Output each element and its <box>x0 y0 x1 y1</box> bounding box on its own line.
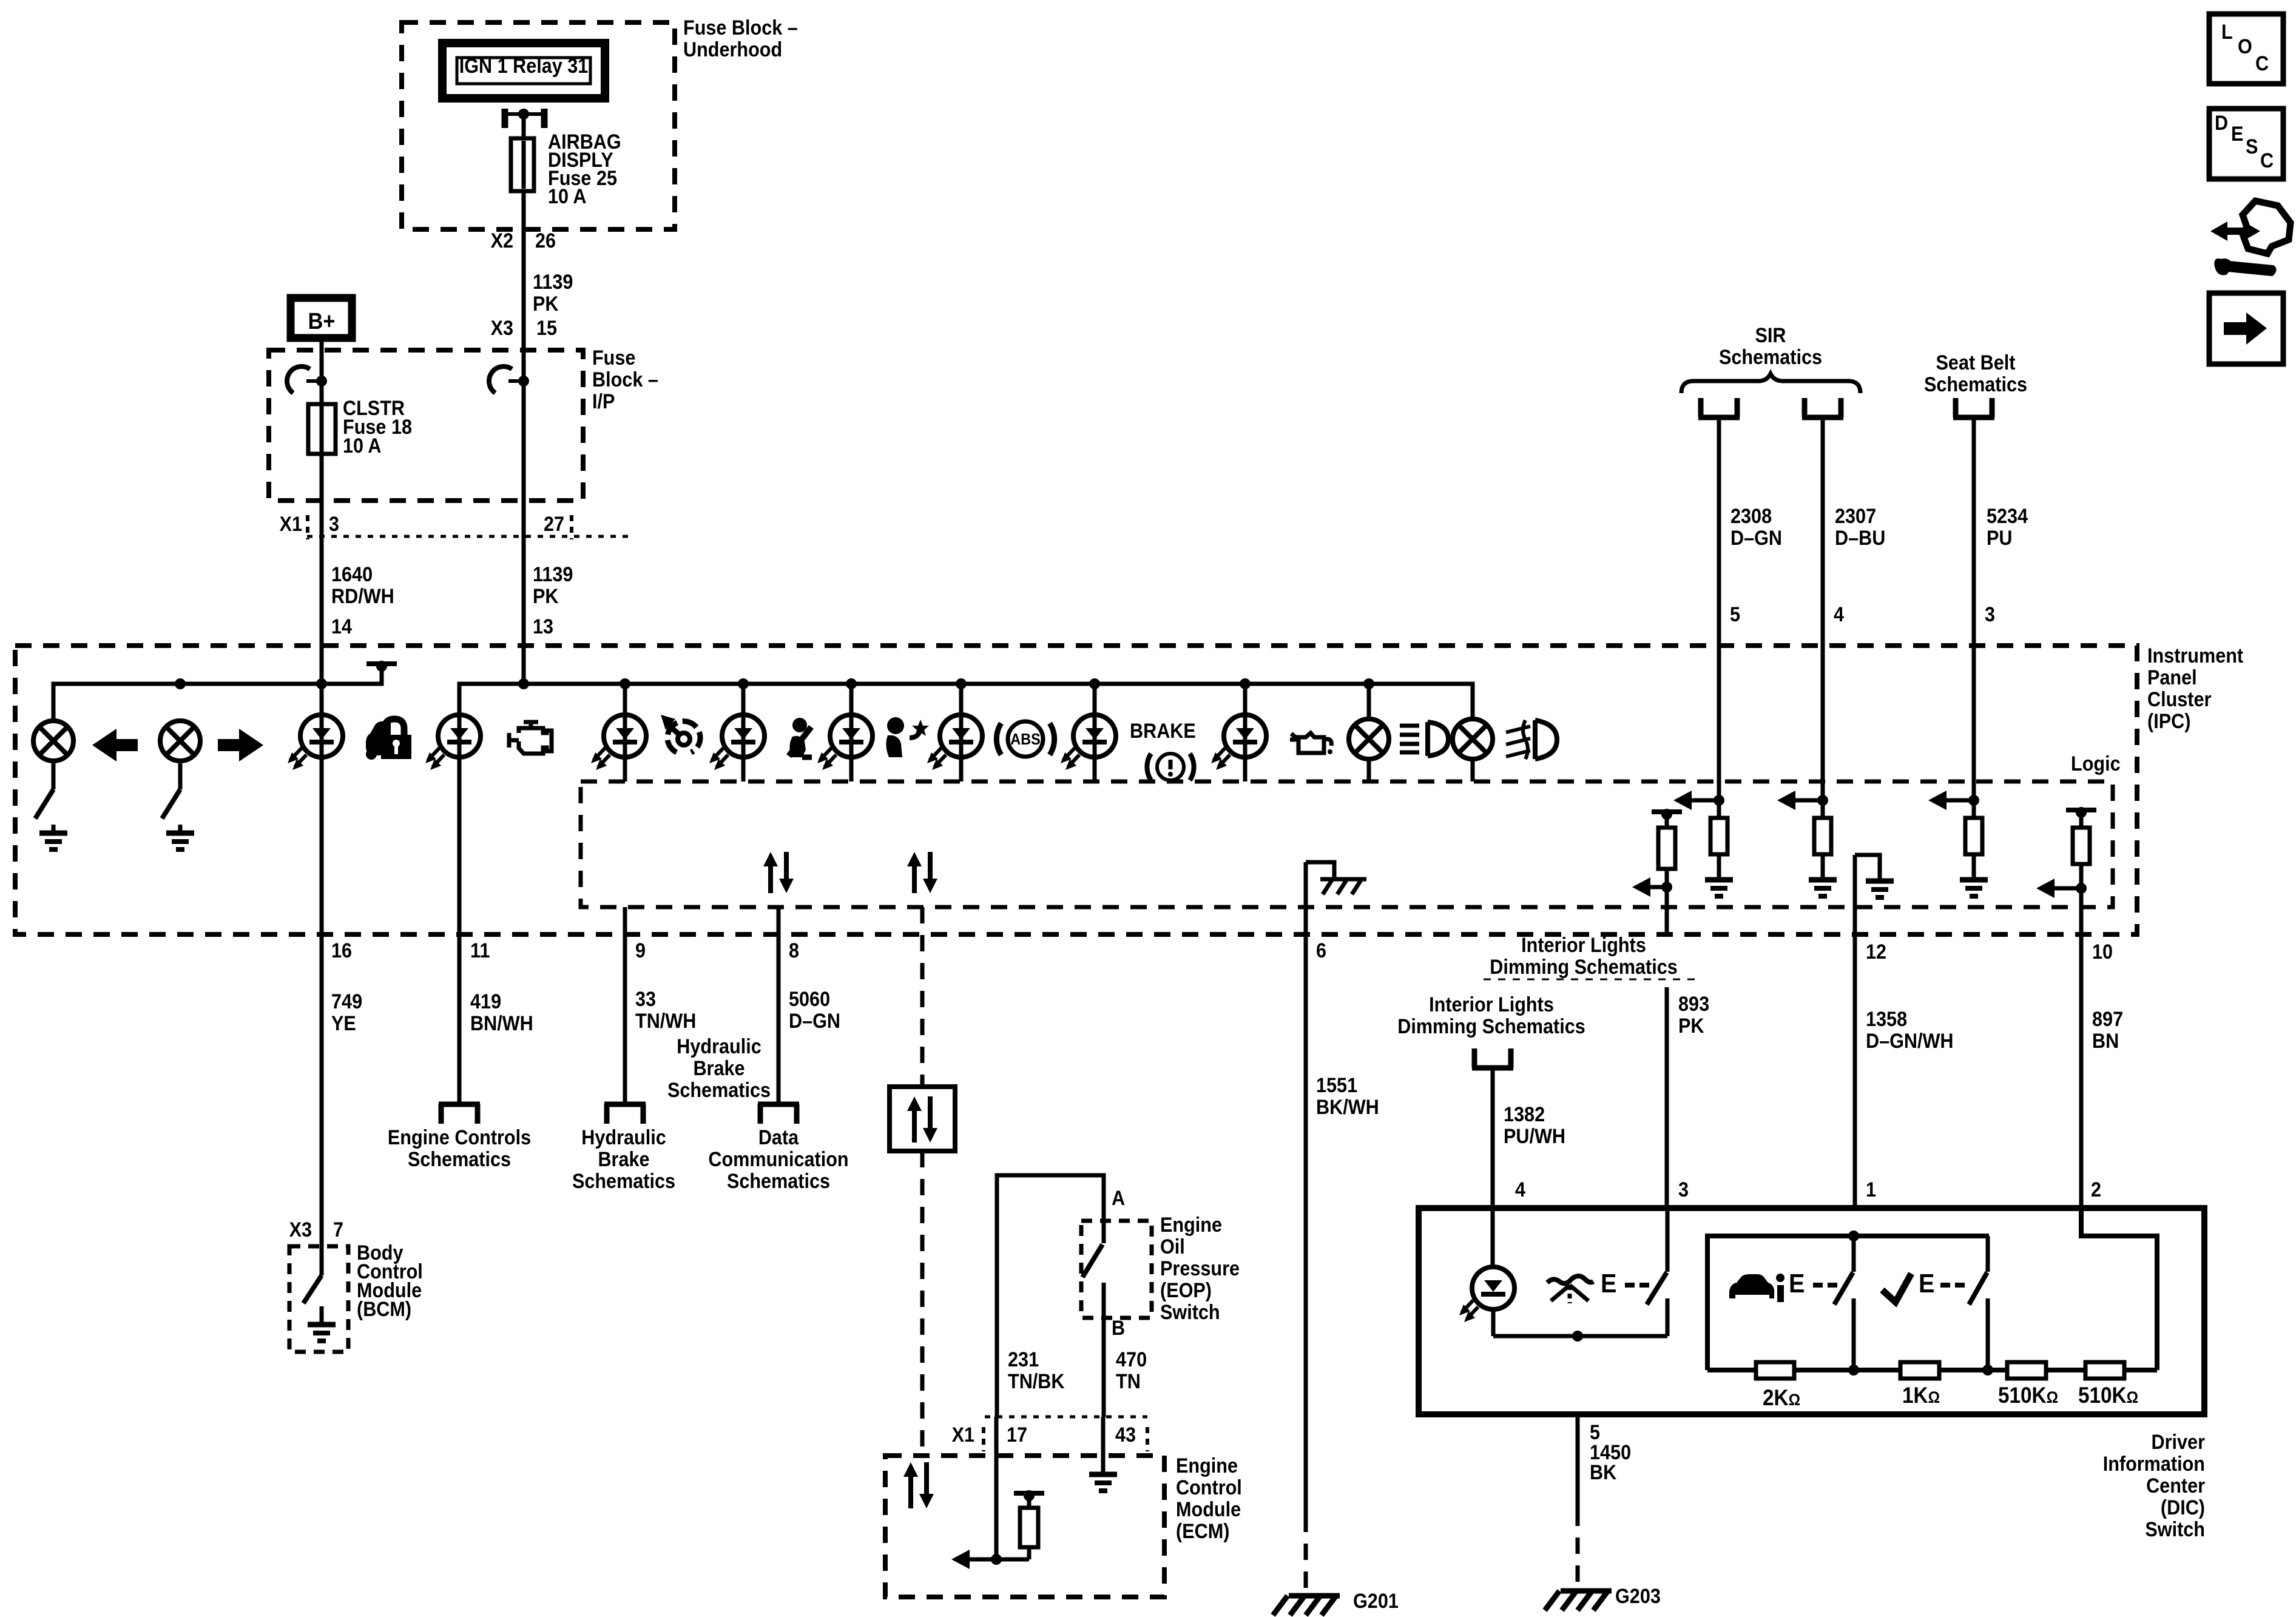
check mark icon <box>1882 1274 1911 1302</box>
legend box arrow <box>2209 293 2283 364</box>
wire 9 / 33 TN-WH <box>623 907 627 1103</box>
ECM output arrow <box>951 1550 1029 1569</box>
off-page bracket DIC dimming feed <box>1472 1048 1513 1068</box>
oil can icon <box>1290 733 1332 754</box>
svg-text:14: 14 <box>331 615 352 638</box>
svg-text:Control: Control <box>1176 1476 1242 1499</box>
svg-text:15: 15 <box>536 317 557 340</box>
wire EOP loop <box>997 1175 1104 1417</box>
wire 1139 PK lower segment <box>522 549 526 684</box>
junction dot wire1 bottom <box>1848 1365 1859 1376</box>
resistor 2K <box>1756 1362 1794 1379</box>
svg-text:D–BU: D–BU <box>1835 527 1885 550</box>
svg-text:5060: 5060 <box>789 988 830 1011</box>
wire 2 inner jog <box>2081 1208 2157 1370</box>
BCM switch blade <box>303 1275 322 1303</box>
svg-text:G203: G203 <box>1615 1585 1661 1608</box>
relay IGN 1 Relay 31 <box>442 43 605 98</box>
wire 6 dashed segment <box>1304 1516 1308 1596</box>
svg-text:26: 26 <box>535 229 556 252</box>
svg-text:(ECM): (ECM) <box>1176 1520 1229 1543</box>
legend box LOC <box>2209 14 2283 84</box>
off-page bracket SIR wire 2307 <box>1802 398 1843 417</box>
svg-text:G201: G201 <box>1353 1590 1399 1613</box>
ground seat belt wire <box>1960 880 1988 896</box>
junction and arrow seat belt wire <box>1968 795 1979 806</box>
left turn arrow icon <box>92 729 138 761</box>
svg-text:TN/BK: TN/BK <box>1008 1370 1065 1393</box>
bidirectional arrows in ECM <box>903 1462 934 1508</box>
svg-text:Engine: Engine <box>1160 1214 1222 1237</box>
dimming switch blade <box>1647 1272 1667 1305</box>
svg-text:Schematics: Schematics <box>408 1148 511 1171</box>
svg-text:Fuse Block –: Fuse Block – <box>683 16 798 39</box>
svg-text:Schematics: Schematics <box>667 1079 771 1102</box>
wire 749 YE to BCM <box>320 934 324 1246</box>
wire 10 / 897 BN <box>2079 888 2084 1208</box>
logic ground wire 12 <box>1855 855 1880 881</box>
off-page bracket wire 8 <box>758 1104 799 1124</box>
svg-text:7: 7 <box>333 1218 343 1241</box>
svg-text:PK: PK <box>533 292 559 316</box>
junction dot wire 14 <box>316 678 327 689</box>
svg-text:6: 6 <box>1316 939 1326 962</box>
junction dot and arrow wire 10 <box>2076 883 2087 894</box>
gauge icon with arrow <box>661 715 700 752</box>
wire 1640 RD/WH <box>320 549 324 721</box>
svg-text:419: 419 <box>470 990 501 1013</box>
headlight indicator lamp <box>1349 719 1389 759</box>
svg-text:Cluster: Cluster <box>2147 688 2211 711</box>
resistor 510K second <box>2085 1362 2124 1379</box>
DIC resistor network line <box>1707 1368 2157 1372</box>
svg-text:Schematics: Schematics <box>1719 346 1822 369</box>
wire DIC LED to common <box>1491 1308 1496 1336</box>
svg-text:TN/WH: TN/WH <box>635 1010 696 1033</box>
svg-text:Oil: Oil <box>1160 1235 1185 1258</box>
svg-text:10 A: 10 A <box>343 434 382 457</box>
svg-text:1139: 1139 <box>533 563 573 586</box>
svg-text:E: E <box>1919 1269 1934 1298</box>
svg-text:(IPC): (IPC) <box>2147 710 2190 733</box>
svg-text:3: 3 <box>1985 603 1995 626</box>
wire fog lamp bottom <box>1471 759 1475 781</box>
fuse F25 AIRBAG DISPLY 10A <box>511 138 534 191</box>
ground G203 <box>1545 1591 1612 1610</box>
svg-text:(DIC): (DIC) <box>2161 1496 2205 1519</box>
wire ABS LED <box>959 684 964 781</box>
security indicator LED <box>288 715 343 770</box>
svg-text:Interior Lights: Interior Lights <box>1521 934 1646 957</box>
svg-text:Switch: Switch <box>1160 1301 1220 1324</box>
svg-text:BN/WH: BN/WH <box>470 1012 533 1035</box>
EOP switch enclosure <box>1081 1221 1152 1318</box>
driver information center enclosure <box>1419 1208 2204 1414</box>
svg-text:C: C <box>2260 149 2274 172</box>
wire dimming switch lower <box>1666 1298 1670 1336</box>
svg-text:A: A <box>1112 1187 1125 1210</box>
svg-text:O: O <box>2238 35 2252 58</box>
junction dot check switch bottom <box>1982 1365 1993 1376</box>
wire 1382 PU/WH <box>1491 1068 1495 1208</box>
switch blade lamp1 <box>35 789 53 819</box>
wire 14 through IPC <box>320 684 324 934</box>
wire fuse 25 to connector X2 <box>522 191 526 258</box>
body control module enclosure <box>289 1246 348 1352</box>
svg-text:5: 5 <box>1730 603 1740 626</box>
svg-text:1551: 1551 <box>1316 1074 1357 1097</box>
svg-text:Interior Lights: Interior Lights <box>1429 993 1554 1016</box>
ground G201 <box>1273 1596 1340 1615</box>
svg-text:1358: 1358 <box>1866 1008 1907 1031</box>
DIC backlight LED <box>1459 1267 1514 1322</box>
svg-text:L: L <box>2221 21 2233 44</box>
svg-text:D: D <box>2215 112 2228 135</box>
svg-text:Hydraulic: Hydraulic <box>677 1035 761 1058</box>
svg-text:X2: X2 <box>491 229 513 252</box>
seat belt indicator LED <box>709 715 765 770</box>
wire 5 DIC to ground <box>1576 1414 1580 1510</box>
resistor 510K first <box>2007 1362 2046 1379</box>
wire 1139 through IP block <box>522 350 526 549</box>
brace SIR <box>1681 374 1860 393</box>
svg-text:8: 8 <box>789 939 799 962</box>
svg-text:ABS: ABS <box>1010 730 1040 748</box>
right turn indicator lamp <box>160 721 200 761</box>
svg-text:Hydraulic: Hydraulic <box>581 1126 666 1149</box>
wire DIC pin4 to LED <box>1491 1208 1495 1268</box>
junction dot wire 17 <box>991 1554 1002 1565</box>
svg-text:893: 893 <box>1678 993 1709 1016</box>
svg-text:D–GN: D–GN <box>1730 527 1782 550</box>
svg-text:C: C <box>2255 52 2269 75</box>
junction dot bus2 x=1225 <box>738 678 749 689</box>
off-page bracket SIR wire 2308 <box>1698 398 1740 417</box>
BCM switch wire <box>320 1246 324 1275</box>
wire 5234 PU <box>1972 417 1976 800</box>
svg-text:(BCM): (BCM) <box>357 1298 411 1321</box>
ECM supply bar <box>1014 1490 1044 1501</box>
wire 43 inside ECM to ground <box>1101 1417 1106 1473</box>
svg-text:10 A: 10 A <box>548 185 587 208</box>
wire 1 lower contact <box>1852 1298 1856 1370</box>
svg-text:BK: BK <box>1590 1461 1617 1484</box>
svg-text:Information: Information <box>2103 1453 2205 1476</box>
wire 893 PK upper <box>1665 887 1669 933</box>
check engine icon <box>509 722 552 754</box>
junction dot and output arrow wire 893 <box>1661 882 1672 893</box>
svg-text:BRAKE: BRAKE <box>1130 720 1196 743</box>
junction dot DIC common <box>1572 1331 1583 1342</box>
airbag indicator LED <box>817 715 873 770</box>
svg-text:Brake: Brake <box>693 1057 745 1080</box>
DIC switch inner box <box>1707 1236 1989 1370</box>
junction dot bus2 x=2256 <box>1363 678 1374 689</box>
wire EOP top contact <box>1102 1221 1106 1243</box>
wire 17 inside ECM <box>994 1417 999 1559</box>
wire brake LED <box>1093 684 1097 781</box>
svg-text:B+: B+ <box>308 309 336 334</box>
resistor wire 5 <box>1717 800 1721 818</box>
resistor wire 4 <box>1821 800 1825 818</box>
wire gauge LED <box>623 684 627 781</box>
engine control module enclosure <box>885 1456 1164 1597</box>
right turn arrow icon <box>218 729 263 761</box>
svg-text:PU: PU <box>1987 527 2013 550</box>
junction dot bus2 x=1030 <box>620 678 630 689</box>
serial data dashed wire lower <box>920 1151 925 1456</box>
svg-text:E: E <box>2231 123 2243 146</box>
svg-text:749: 749 <box>331 990 362 1013</box>
svg-text:5234: 5234 <box>1987 505 2028 528</box>
svg-text:Module: Module <box>1176 1498 1241 1521</box>
wire airbag LED <box>849 684 854 781</box>
ground wire 4 <box>1809 880 1837 896</box>
svg-text:4: 4 <box>1515 1178 1525 1201</box>
svg-text:I/P: I/P <box>592 390 615 413</box>
wire 12 / 1358 D-GN-WH <box>1853 855 1857 1208</box>
svg-text:Engine Controls: Engine Controls <box>388 1126 531 1149</box>
svg-text:Logic: Logic <box>2071 752 2121 775</box>
wire oil LED <box>1243 684 1248 781</box>
svg-text:Engine: Engine <box>1176 1454 1238 1477</box>
left turn indicator lamp <box>33 721 73 761</box>
svg-text:RD/WH: RD/WH <box>331 585 394 608</box>
svg-text:TN: TN <box>1116 1370 1141 1393</box>
check switch blade <box>1969 1272 1987 1305</box>
fuse block underhood enclosure <box>402 22 675 229</box>
relay output terminal <box>502 109 508 128</box>
switch blade lamp2 <box>162 789 180 819</box>
wire 1139 PK upper segment <box>522 258 526 350</box>
junction and arrow wire 4 <box>1817 795 1828 806</box>
fog light icon <box>1506 720 1557 759</box>
car info icon <box>1729 1274 1784 1302</box>
wire lamp1 to switch <box>52 761 56 789</box>
wire 11 through IPC <box>458 684 462 934</box>
ECM connector X1 row <box>985 1416 1147 1419</box>
wire headlight lamp <box>1367 684 1371 719</box>
svg-text:4: 4 <box>1834 603 1844 626</box>
svg-text:16: 16 <box>331 939 352 962</box>
IPC internal ground flag <box>1306 862 1334 879</box>
wire 2308 D-GN <box>1717 417 1721 800</box>
svg-text:897: 897 <box>2092 1008 2123 1031</box>
svg-text:Brake: Brake <box>598 1148 649 1171</box>
svg-text:Block –: Block – <box>592 368 658 391</box>
wire 6 / 1551 BK-WH <box>1304 862 1308 1516</box>
svg-text:YE: YE <box>331 1012 356 1035</box>
svg-text:2308: 2308 <box>1730 505 1772 528</box>
svg-text:470: 470 <box>1116 1348 1147 1371</box>
logic block enclosure <box>581 781 2113 907</box>
ground wire 43 <box>1089 1474 1117 1491</box>
wire 8 / 5060 D-GN <box>777 907 781 1103</box>
svg-text:B: B <box>1112 1317 1125 1340</box>
svg-text:11: 11 <box>470 939 490 962</box>
svg-text:PK: PK <box>1678 1014 1704 1038</box>
svg-text:1: 1 <box>1866 1178 1876 1201</box>
connector X2 pin 26 <box>522 232 526 258</box>
svg-text:Underhood: Underhood <box>683 38 782 61</box>
svg-text:Switch: Switch <box>2145 1518 2205 1541</box>
svg-text:Fuse: Fuse <box>592 346 635 370</box>
svg-text:X1: X1 <box>952 1423 974 1447</box>
BCM ground <box>308 1306 336 1341</box>
svg-text:S: S <box>2246 135 2258 158</box>
svg-text:1640: 1640 <box>331 563 373 586</box>
off-page bracket seat belt wire <box>1953 398 1994 417</box>
brake indicator LED <box>1061 715 1116 770</box>
svg-text:231: 231 <box>1008 1348 1039 1371</box>
wire lamp2 to switch <box>178 761 183 789</box>
wire 2307 D-BU <box>1821 417 1825 800</box>
logic supply bar wire 893 <box>1652 809 1682 820</box>
resistor wire 10 <box>2079 814 2084 828</box>
headlight icon <box>1400 722 1448 756</box>
svg-text:E: E <box>1601 1269 1616 1298</box>
svg-text:3: 3 <box>329 513 339 536</box>
seat belt icon <box>789 718 812 757</box>
svg-text:Schematics: Schematics <box>727 1170 830 1193</box>
serial data dashed wire upper <box>920 907 925 1087</box>
supply stub terminal <box>366 661 397 672</box>
wire fuse 18 down <box>320 454 324 549</box>
instrument panel cluster enclosure <box>15 646 2137 934</box>
wire 893 PK lower <box>1665 987 1669 1208</box>
svg-text:12: 12 <box>1866 940 1886 964</box>
svg-text:27: 27 <box>544 513 564 536</box>
svg-text:X3: X3 <box>491 317 513 340</box>
junction dot lamp2 <box>175 678 186 689</box>
svg-text:Communication: Communication <box>708 1148 848 1171</box>
wire seatbelt LED <box>741 684 746 781</box>
wire relay to fuse 25 <box>522 114 526 138</box>
logic supply bar wire 10 <box>2066 807 2096 818</box>
battery feed B+ <box>291 298 352 338</box>
resistor 1K <box>1900 1362 1939 1379</box>
ground lamp1 <box>39 825 67 849</box>
junction and arrow wire 5 <box>1714 795 1724 806</box>
ABS indicator LED <box>927 715 982 770</box>
svg-text:PU/WH: PU/WH <box>1504 1125 1565 1148</box>
svg-text:E: E <box>1789 1269 1805 1298</box>
svg-text:Panel: Panel <box>2147 666 2197 689</box>
svg-text:BN: BN <box>2092 1030 2119 1053</box>
svg-text:D–GN: D–GN <box>789 1010 840 1033</box>
wire DIC pin3 to switch <box>1666 1208 1670 1272</box>
bus wire left (fuse 18 feed) <box>53 669 382 721</box>
svg-text:IGN 1 Relay 31: IGN 1 Relay 31 <box>459 55 589 78</box>
oil pressure indicator LED <box>1211 715 1266 770</box>
svg-text:1382: 1382 <box>1504 1103 1545 1126</box>
svg-text:1139: 1139 <box>533 271 573 294</box>
svg-text:Pressure: Pressure <box>1160 1257 1240 1280</box>
svg-text:PK: PK <box>533 585 559 608</box>
wire fog lamp <box>1471 684 1475 719</box>
wire headlight lamp bottom <box>1367 759 1371 781</box>
svg-text:SIR: SIR <box>1755 324 1786 347</box>
ground lamp2 <box>166 825 194 849</box>
junction dot bus2 x=1584 <box>956 678 967 689</box>
svg-text:10: 10 <box>2092 940 2113 964</box>
svg-text:2307: 2307 <box>1835 505 1876 528</box>
feed hook CLSTR fuse <box>282 361 310 393</box>
wire B+ to fuse block IP <box>320 338 324 404</box>
off-page bracket wire 11 <box>439 1104 480 1124</box>
junction dot bus2 x=1804 <box>1089 678 1100 689</box>
bidirectional arrows serial data <box>907 852 937 893</box>
airbag icon <box>886 717 929 757</box>
check engine indicator LED <box>425 715 481 770</box>
svg-text:D–GN/WH: D–GN/WH <box>1866 1030 1954 1053</box>
wire check switch top contact <box>1986 1236 1990 1272</box>
junction dot bus2 x=1403 <box>846 678 857 689</box>
serial data connector box <box>890 1087 955 1151</box>
junction dot bus2 x=863 <box>518 678 529 689</box>
fuse block I/P enclosure <box>269 350 583 501</box>
feed hook fuse block IP right <box>484 361 512 393</box>
svg-text:17: 17 <box>1007 1423 1027 1447</box>
junction dot bus2 x=2052 <box>1240 678 1251 689</box>
svg-text:Instrument: Instrument <box>2147 644 2243 667</box>
svg-text:3: 3 <box>1678 1178 1689 1201</box>
bidirectional arrows in data box <box>907 1096 937 1143</box>
wire 5 dashed segment <box>1576 1510 1580 1591</box>
EOP switch blade <box>1082 1244 1102 1277</box>
ABS icon <box>996 721 1054 757</box>
legend tools icon <box>2210 201 2291 274</box>
gauge warning LED <box>591 715 646 770</box>
svg-text:33: 33 <box>635 988 656 1011</box>
dimming icon <box>1547 1276 1593 1303</box>
resistor seat belt wire <box>1972 800 1976 818</box>
wire EOP lower contact <box>1102 1283 1106 1417</box>
fog indicator lamp <box>1453 719 1493 759</box>
bus wire right (fuse 25 feed) <box>459 684 1473 721</box>
resistor wire 893 <box>1665 815 1669 828</box>
ECM pull-up resistor <box>1027 1547 1032 1559</box>
legend box DESC <box>2209 109 2283 179</box>
svg-text:(EOP): (EOP) <box>1160 1279 1212 1302</box>
svg-text:X3: X3 <box>289 1218 312 1241</box>
svg-text:43: 43 <box>1115 1423 1136 1447</box>
fuse F18 CLSTR 10A <box>308 404 336 454</box>
svg-text:13: 13 <box>533 615 553 638</box>
svg-text:BK/WH: BK/WH <box>1316 1096 1379 1119</box>
wire check switch lower contact <box>1986 1298 1990 1370</box>
wire 1 top contact <box>1852 1236 1856 1272</box>
svg-text:9: 9 <box>635 939 646 962</box>
svg-text:Schematics: Schematics <box>1924 373 2027 396</box>
svg-text:Driver: Driver <box>2152 1431 2206 1454</box>
bidirectional arrows wire 8 <box>763 852 794 893</box>
svg-text:Dimming Schematics: Dimming Schematics <box>1490 956 1678 979</box>
DIC common wire <box>1493 1334 1667 1338</box>
off-page bracket wire 9 <box>604 1104 646 1124</box>
ground wire 5 <box>1705 880 1733 896</box>
wire 419 BN/WH below IPC <box>458 934 462 1104</box>
svg-text:Center: Center <box>2146 1474 2205 1497</box>
svg-text:Dimming Schematics: Dimming Schematics <box>1397 1015 1585 1038</box>
junction dot wire1 top <box>1848 1230 1859 1241</box>
svg-text:X1: X1 <box>280 513 302 536</box>
car info switch blade <box>1834 1272 1853 1305</box>
svg-text:2: 2 <box>2091 1178 2101 1201</box>
security car lock icon <box>366 719 411 760</box>
svg-text:Data: Data <box>758 1126 799 1149</box>
svg-text:Seat Belt: Seat Belt <box>1936 351 2016 374</box>
